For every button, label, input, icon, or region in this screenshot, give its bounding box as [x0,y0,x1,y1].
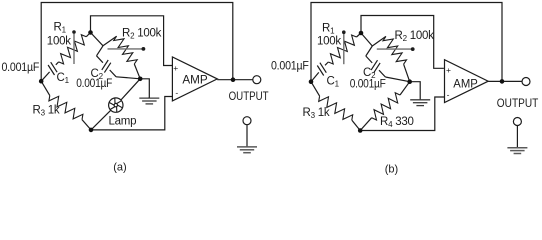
svg-text:C1: C1 [327,76,340,89]
wire fork to R2 (b) [372,36,386,46]
wire R3 to bottom node (b) [352,120,360,130]
svg-text:R2 100k: R2 100k [395,30,435,43]
node bottom (b) [358,128,363,133]
wire fork to C2 branch (a) [97,46,104,56]
wire R2 to right node (a) [134,64,140,79]
wire lamp to right node (a) [121,79,140,100]
ground below output terminal (a) [246,125,248,147]
lower output terminal (a) [243,117,251,125]
output terminal (b) [522,78,530,86]
svg-text:100k: 100k [47,36,71,48]
wire C1-R1 (b) [325,62,328,65]
node bottom (a) [89,128,94,133]
wire top node to fork (a) [91,33,104,46]
wire AMP output (a) [217,79,253,81]
resistor R1 100k (b) [328,35,356,64]
resistor R2 100k (a) [114,36,138,64]
node top (b) [359,31,364,36]
node top (a) [88,30,93,35]
svg-text:100k: 100k [317,36,341,48]
svg-text:+: + [173,63,178,73]
wire C1-R1 (a) [56,62,59,65]
resistor R3 1k (a) [49,96,83,120]
svg-text:0.001µF: 0.001µF [76,78,112,90]
svg-text:OUTPUT: OUTPUT [229,89,269,103]
wire R1 to top node (a) [86,33,90,37]
wire AMP output (b) [488,80,522,82]
wire right node to ground (a) [140,79,149,98]
svg-text:AMP: AMP [453,76,478,90]
wire R4 to right node (b) [400,82,410,95]
svg-text:(b): (b) [385,164,398,176]
lower output terminal (b) [513,118,521,126]
wiper of rheostat R1 (b) [343,34,345,64]
wiper of rheostat R2 (b) [377,48,412,50]
svg-text:R3 1k: R3 1k [303,107,330,120]
wiper of rheostat R1 (a) [73,34,75,64]
capacitor C1 (b) [317,66,323,76]
wire fork to C2 branch (b) [366,46,373,56]
wire R1 to top node (b) [357,33,362,37]
svg-text:+: + [446,65,451,75]
svg-text:0.001µF: 0.001µF [350,78,386,90]
wire bottom node to R4 (b) [360,118,372,131]
svg-text:0.001µF: 0.001µF [2,62,40,74]
wire bottom node to AMP - input (b) [360,97,444,131]
svg-text:-: - [447,90,450,100]
node right (b) [407,79,412,84]
svg-text:(a): (a) [113,162,126,174]
wiper of rheostat R2 (a) [108,48,143,50]
wire top node to fork (b) [361,33,372,46]
wire R3 to bottom node (a) [82,120,91,130]
capacitor C2 (b) [371,60,377,70]
node left (a) [39,79,44,84]
wire right node to ground (b) [410,82,421,100]
ground at bridge right node (b) [410,99,430,106]
svg-text:0.001µF: 0.001µF [271,60,309,72]
output terminal (a) [253,76,261,84]
wire C2 to corner (b) [379,70,385,77]
wire C2 to corner (a) [110,70,116,77]
ground at bridge right node (a) [139,97,159,104]
svg-text:OUTPUT: OUTPUT [497,96,539,110]
ground below output terminal (b) [516,126,518,148]
wire C2 corner to right node (a) [116,77,140,79]
node output junction (a) [231,77,236,82]
resistor R1 100k (a) [59,35,87,64]
wire R2 to right node (b) [404,64,410,82]
svg-text:R1: R1 [54,22,67,35]
wire bridge edge L-C1 (b) [311,72,319,81]
svg-text:R3 1k: R3 1k [33,105,60,118]
wire bottom node to lamp (a) [91,110,111,130]
op-amp U1 AMP (a) [172,57,217,101]
wire L to R3 (a) [41,81,50,95]
wire fork to R2 (a) [103,36,117,46]
op-amp U2 AMP (b) [445,60,489,103]
wire bottom node to AMP - input (a) [91,97,172,130]
svg-text:AMP: AMP [182,72,207,86]
wire top node to AMP + input (b) [361,16,444,69]
node left (b) [309,79,314,84]
wire top node to AMP + input (a) [91,16,173,66]
svg-text:-: - [175,88,178,98]
resistor R4 330 (b) [372,93,400,120]
svg-text:C1: C1 [57,72,70,85]
svg-text:R1: R1 [322,23,335,36]
capacitor C2 (a) [102,60,108,70]
wire outer feedback loop (b): output top rail [311,3,502,82]
wire C2 corner to right node (b) [385,77,409,82]
svg-text:Lamp: Lamp [109,116,137,128]
lamp (a) [109,98,123,112]
resistor R2 100k (b) [383,36,407,64]
wire bridge edge L-C1 (a) [41,72,49,81]
svg-text:R2 100k: R2 100k [122,28,162,41]
node output junction (b) [500,79,505,84]
capacitor C1 (a) [48,65,54,75]
wire L to R3 (b) [311,82,320,96]
svg-text:R4 330: R4 330 [380,116,414,129]
wire outer feedback loop (a): output top rail [41,3,233,82]
node right (a) [138,77,143,82]
resistor R3 1k (b) [319,96,353,120]
